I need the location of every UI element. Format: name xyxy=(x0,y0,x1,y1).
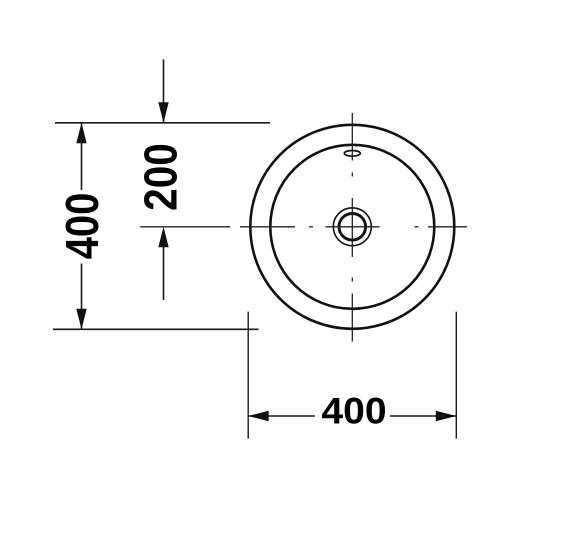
svg-text:400: 400 xyxy=(321,391,386,432)
inner basin circle xyxy=(270,145,434,309)
horizontal center line (right dot) xyxy=(415,226,419,228)
400 bottom dimension left extension line xyxy=(247,312,249,439)
svg-text:400: 400 xyxy=(56,193,108,260)
drain inner circle xyxy=(339,214,366,241)
400 bottom dimension line (left stub) xyxy=(248,415,315,417)
200 dimension up arrowhead xyxy=(158,227,168,248)
400 bottom dimension arrowhead left xyxy=(248,411,269,421)
overflow hole ellipse xyxy=(344,151,360,157)
horizontal center line / 200 reference segment xyxy=(140,226,230,228)
400 vertical dimension line (upper part) xyxy=(81,123,83,190)
drain outer circle xyxy=(333,208,371,246)
vertical center line (bottom segment) xyxy=(351,294,353,342)
svg-text:200: 200 xyxy=(134,143,186,211)
400 bottom dimension right extension line xyxy=(455,312,457,439)
vertical center line (middle segment) xyxy=(351,198,353,257)
vertical center line (lower dot) xyxy=(351,278,353,282)
horizontal center line (left dot) xyxy=(309,226,313,228)
400 bottom dimension arrowhead right xyxy=(436,411,457,421)
200 dimension down arrowhead xyxy=(158,102,168,123)
horizontal center line (left segment) xyxy=(240,226,295,228)
top tangent dimension line xyxy=(55,122,270,124)
vertical center line (top segment) xyxy=(351,113,353,161)
400 vertical dimension arrowhead up xyxy=(76,123,86,144)
200 dimension up arrow tail xyxy=(163,247,165,300)
outer basin circle xyxy=(250,125,454,329)
200 dimension down arrow tail xyxy=(163,59,165,122)
400 vertical dimension line (lower part) xyxy=(81,264,83,330)
horizontal center line (right segment) xyxy=(428,226,467,228)
400 bottom dimension line (right stub) xyxy=(390,415,456,417)
400 vertical dimension arrowhead down xyxy=(76,309,86,330)
horizontal center line (middle segment) xyxy=(326,226,380,228)
vertical center line (upper dot) xyxy=(351,173,353,177)
bottom tangent dimension line xyxy=(53,328,259,330)
